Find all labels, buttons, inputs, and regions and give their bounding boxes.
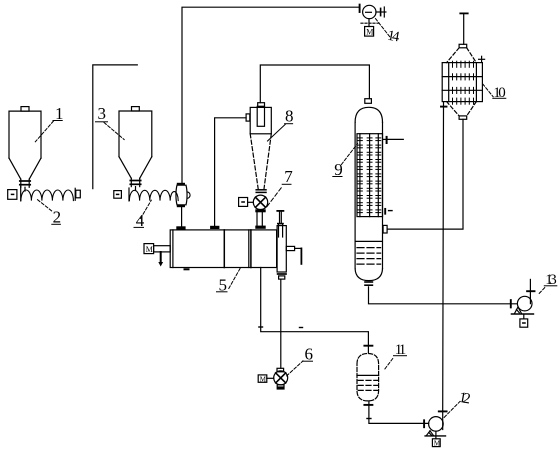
wire: column bottoms to pump 13 <box>369 287 518 304</box>
drum discharge hood (right end) <box>277 211 301 279</box>
rotary drum 5 <box>144 230 277 269</box>
fan 14 <box>360 5 386 37</box>
label 7 <box>267 167 293 207</box>
wire: tank 11 bottoms to pump 12 <box>369 401 429 427</box>
svg-text:14: 14 <box>386 28 401 46</box>
svg-text:M: M <box>434 440 441 448</box>
label 12 <box>444 390 471 418</box>
wire: open pipe bracket left of hopper 3 <box>93 65 138 189</box>
wire: drum drain to tank 11 <box>259 268 373 353</box>
rotary feed valve (on drum inlet) <box>176 183 190 229</box>
pump 13 <box>511 279 535 327</box>
label 11 <box>385 342 407 369</box>
screw conveyor 4 <box>114 188 178 201</box>
label 1 <box>35 104 63 142</box>
cyclone 8 <box>246 103 271 193</box>
valve 7 (below cyclone) <box>239 195 268 209</box>
svg-text:M: M <box>260 375 267 383</box>
svg-text:12: 12 <box>458 390 472 408</box>
rotary valve 6 <box>258 368 288 389</box>
column 9 (scrubber) <box>355 99 403 286</box>
wire: cyclone gas outlet to column 9 top <box>260 65 369 103</box>
svg-text:M: M <box>366 27 373 36</box>
label 8 <box>268 107 294 141</box>
wire: top suction duct from feed valve line to fan 14 <box>182 7 359 183</box>
label 9 <box>333 144 358 179</box>
label 3 <box>96 104 125 140</box>
heat exchanger 10 <box>442 13 484 119</box>
screw conveyor 2 <box>8 187 81 201</box>
label 6 <box>287 344 313 376</box>
label 14 <box>376 19 402 46</box>
wire: HX 10 bottom to column 9 nozzle <box>387 119 463 229</box>
hopper 3 <box>119 107 152 191</box>
wire: HX 10 shell line down to pump 12 <box>439 102 447 430</box>
svg-text:7: 7 <box>284 167 293 186</box>
svg-text:8: 8 <box>285 107 294 126</box>
pump 12 <box>425 417 445 448</box>
svg-text:1: 1 <box>55 104 64 123</box>
svg-text:3: 3 <box>98 104 107 123</box>
hopper 1 <box>9 107 41 191</box>
label 4 <box>134 200 151 230</box>
svg-text:6: 6 <box>305 344 314 363</box>
svg-text:M: M <box>146 245 153 254</box>
wire: drum discharge downpipe to rotary valve 6 <box>280 279 282 368</box>
tank 11 <box>357 354 379 419</box>
svg-text:2: 2 <box>53 208 62 227</box>
svg-text:9: 9 <box>334 160 343 179</box>
label 5 <box>217 267 242 295</box>
label 2 <box>38 200 62 227</box>
wire: valve 7 downpipe into drum <box>256 210 265 228</box>
wire: drum gas duct to cyclone inlet <box>211 118 246 229</box>
label 10 <box>483 84 506 101</box>
label 13 <box>539 272 557 294</box>
